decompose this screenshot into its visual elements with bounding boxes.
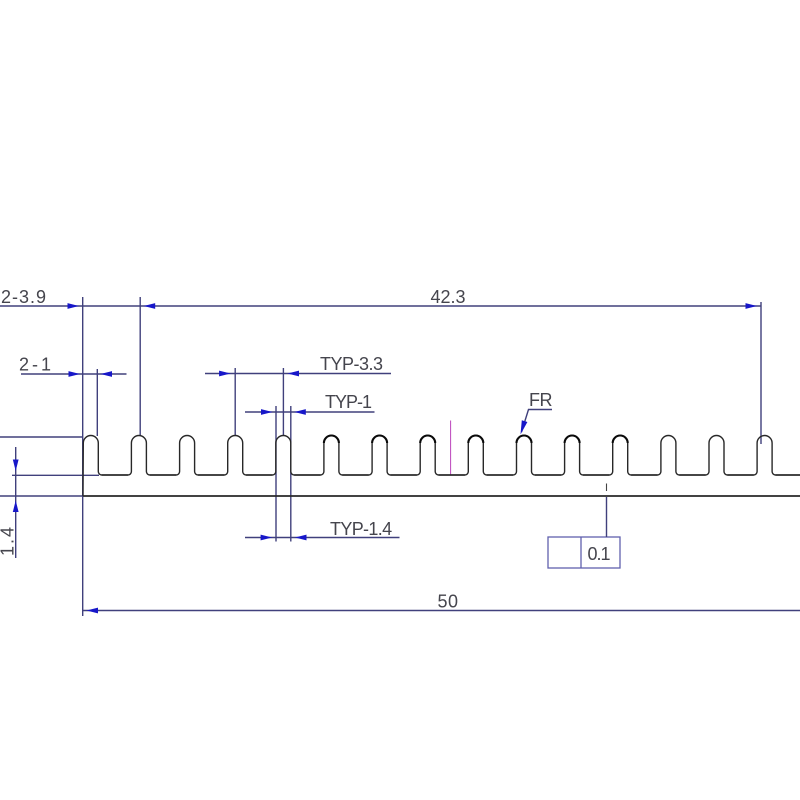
svg-text:FR: FR xyxy=(529,390,552,410)
arrow 2-1 right pointing left xyxy=(101,371,113,377)
wire tolerance leader tick above base line xyxy=(606,484,608,492)
wire extension line valley level y=475 xyxy=(12,474,99,476)
svg-text:TYP-3.3: TYP-3.3 xyxy=(320,354,383,374)
wire dimension line TYP-1.4 xyxy=(245,537,400,539)
wire dimension line TYP-1 xyxy=(245,411,375,413)
arrow TYP-3.3 left pointing right xyxy=(219,371,231,377)
wire top dimension line 2-3.9 / 42.3 xyxy=(0,305,761,307)
comb profile bold tooth caps xyxy=(324,436,628,443)
comb profile bold valley floors xyxy=(102,474,800,476)
wire dimension line TYP-3.3 xyxy=(205,373,391,375)
wire extension line second tooth center x=140.2 xyxy=(139,297,141,436)
svg-text:1.4: 1.4 xyxy=(0,525,18,556)
arrow 50 left pointing left xyxy=(87,608,99,614)
svg-text:42.3: 42.3 xyxy=(431,287,466,307)
wire tolerance leader xyxy=(606,497,608,537)
arrow at second tooth center pointing left xyxy=(144,303,156,309)
wire extension line tooth5 center x=283.4 xyxy=(282,368,284,436)
arrow TYP-3.3 right pointing left xyxy=(288,371,300,377)
svg-text:0.1: 0.1 xyxy=(588,544,611,564)
wire magenta centerline xyxy=(450,421,452,475)
comb profile outline xyxy=(83,436,800,496)
wire FR leader underline xyxy=(522,410,553,433)
arrow TYP-1.4 left pointing right xyxy=(261,535,273,541)
base bottom line xyxy=(83,495,800,497)
wire extension line tooth4 center x=235.2 xyxy=(234,368,236,436)
tolerance frame divider xyxy=(580,537,582,568)
arrow TYP-1.4 right pointing left xyxy=(295,535,307,541)
tolerance frame box xyxy=(548,537,620,568)
arrow 2-1 left pointing right xyxy=(69,371,81,377)
arrow FR leader pointing down to tooth top xyxy=(521,420,528,434)
svg-text:2-1: 2-1 xyxy=(19,355,54,375)
svg-text:TYP-1: TYP-1 xyxy=(325,392,372,412)
svg-text:2-3.9: 2-3.9 xyxy=(1,287,47,307)
arrow at right 42.3 extension pointing right xyxy=(746,303,758,309)
arrow 1.4 upper pointing down xyxy=(13,460,19,472)
svg-text:TYP-1.4: TYP-1.4 xyxy=(330,519,392,539)
wire extension line 42.3 right x=761 xyxy=(760,302,762,444)
arrow TYP-1 right pointing left xyxy=(294,409,306,415)
arrow TYP-1 left pointing right xyxy=(261,409,273,415)
wire extension line tooth5 left edge x=276 long xyxy=(275,406,277,542)
wire extension line tooth5 right edge x=290.8 long xyxy=(290,406,292,542)
wire dimension line 50 xyxy=(83,610,800,612)
wire vertical dimension line 1.4 xyxy=(15,447,17,558)
svg-text:50: 50 xyxy=(438,592,459,612)
wire extension line first tooth right edge x=97.3 xyxy=(96,369,98,436)
wire extension line tooth top level y=437 xyxy=(0,436,82,438)
wire extension line bottom level y=496 xyxy=(0,495,82,497)
wire extension line left part edge x=82.7 xyxy=(82,297,84,616)
wire dimension line 2-1 xyxy=(21,373,127,375)
arrow at left part edge pointing right xyxy=(68,303,80,309)
arrow 1.4 lower pointing up xyxy=(13,501,19,513)
